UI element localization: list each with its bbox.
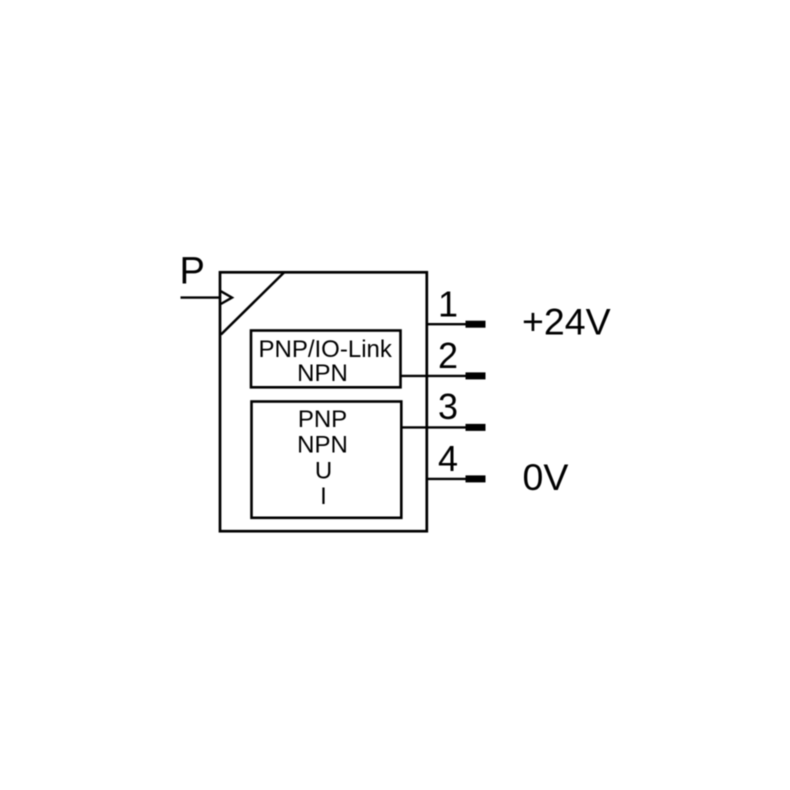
corner diagonal	[221, 273, 284, 335]
svg-text:3: 3	[438, 386, 458, 427]
pin 4 label	[438, 438, 458, 479]
pin 2 terminal	[466, 372, 486, 379]
label I	[320, 483, 327, 510]
pressure port label P	[180, 251, 205, 293]
label PNP (lower box)	[298, 406, 347, 433]
svg-text:0V: 0V	[523, 456, 569, 498]
wire pin 3	[401, 426, 467, 428]
pressure input arrowhead	[221, 291, 232, 304]
wire pin 1	[427, 323, 467, 325]
pin 1 label	[438, 283, 458, 324]
net label 0V	[523, 456, 569, 498]
svg-text:P: P	[180, 251, 205, 293]
wire pin 4	[427, 478, 467, 480]
label NPN (upper box)	[297, 360, 348, 387]
pin 2 label	[438, 335, 458, 376]
label PNP/IO-Link	[259, 336, 393, 363]
output stage box U2 (PNP NPN U I)	[252, 402, 402, 518]
wire pin 2	[401, 375, 468, 377]
svg-text:I: I	[320, 483, 327, 510]
svg-text:1: 1	[438, 283, 458, 324]
svg-text:4: 4	[438, 438, 458, 479]
svg-text:PNP/IO-Link: PNP/IO-Link	[259, 336, 393, 363]
sensor body box	[220, 272, 427, 531]
svg-text:U: U	[315, 458, 332, 485]
svg-text:+24V: +24V	[522, 301, 611, 343]
svg-text:NPN: NPN	[297, 431, 348, 458]
pin 3 terminal	[466, 424, 486, 431]
net label +24V	[522, 301, 611, 343]
label U	[315, 458, 332, 485]
pin 1 terminal	[466, 321, 486, 328]
output stage box U1 (PNP/IO-Link NPN)	[251, 331, 401, 388]
svg-text:2: 2	[438, 335, 458, 376]
pin 4 terminal	[466, 475, 486, 482]
svg-text:PNP: PNP	[298, 406, 347, 433]
svg-text:NPN: NPN	[297, 360, 348, 387]
label NPN (lower box)	[297, 431, 348, 458]
pin 3 label	[438, 386, 458, 427]
pressure input wire	[181, 296, 222, 298]
